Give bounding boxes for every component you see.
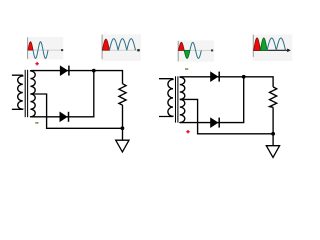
transformer T1 core: [25, 70, 27, 117]
diode D2 (bottom, left circuit): [60, 112, 69, 122]
output waveform plot (left circuit, full-wave rectified): [102, 34, 141, 61]
transformer T1 secondary winding (center-tapped): [30, 71, 35, 117]
wire: node B down and left to D4: [180, 77, 244, 123]
transformer T2 secondary winding (center-tapped): [180, 77, 185, 122]
output waveform plot (right circuit, full-wave rectified): [253, 34, 293, 61]
polarity marker + (right secondary bottom): [186, 130, 189, 133]
diode D4 (bottom, right circuit): [211, 118, 220, 128]
wire: R2 bottom to ground (right circuit): [272, 107, 274, 145]
polarity marker - (right secondary top): [185, 68, 188, 70]
input waveform plot (left circuit source): [27, 37, 63, 60]
diode D3 (top, right circuit): [211, 72, 220, 82]
junction node A (D1/D2 cathodes, load top): [92, 69, 96, 73]
junction node B (D3/D4 cathodes, load top): [242, 75, 246, 79]
resistor R1 (load, left circuit): [119, 84, 126, 105]
junction node (R2 bottom / ground rail, right): [271, 132, 275, 136]
polarity marker - (left secondary bottom): [35, 122, 38, 124]
transformer T2 core: [176, 76, 178, 122]
junction node (R1 bottom / ground rail, left): [121, 126, 125, 130]
ground symbol (right circuit): [266, 146, 279, 158]
transformer T2 primary winding: [159, 79, 173, 117]
diode D1 (top, left circuit): [60, 66, 69, 76]
wire: secondary top lead to resistor R1 (top rail): [30, 71, 122, 84]
wire: node A down and left to D2: [30, 71, 93, 117]
ground symbol (left circuit): [116, 140, 129, 152]
input waveform plot (right circuit source): [178, 40, 214, 61]
polarity marker + (left secondary top): [35, 62, 38, 65]
wire: center tap to ground rail (right circuit): [180, 99, 273, 133]
wire: R1 bottom to ground (left circuit): [122, 105, 124, 140]
resistor R2 (load, right circuit): [270, 87, 277, 107]
wire: secondary top lead to resistor R2 (top rail, right circuit): [180, 77, 273, 87]
wire: center tap to ground rail (left circuit): [30, 94, 122, 128]
transformer T1 primary winding: [12, 75, 23, 109]
